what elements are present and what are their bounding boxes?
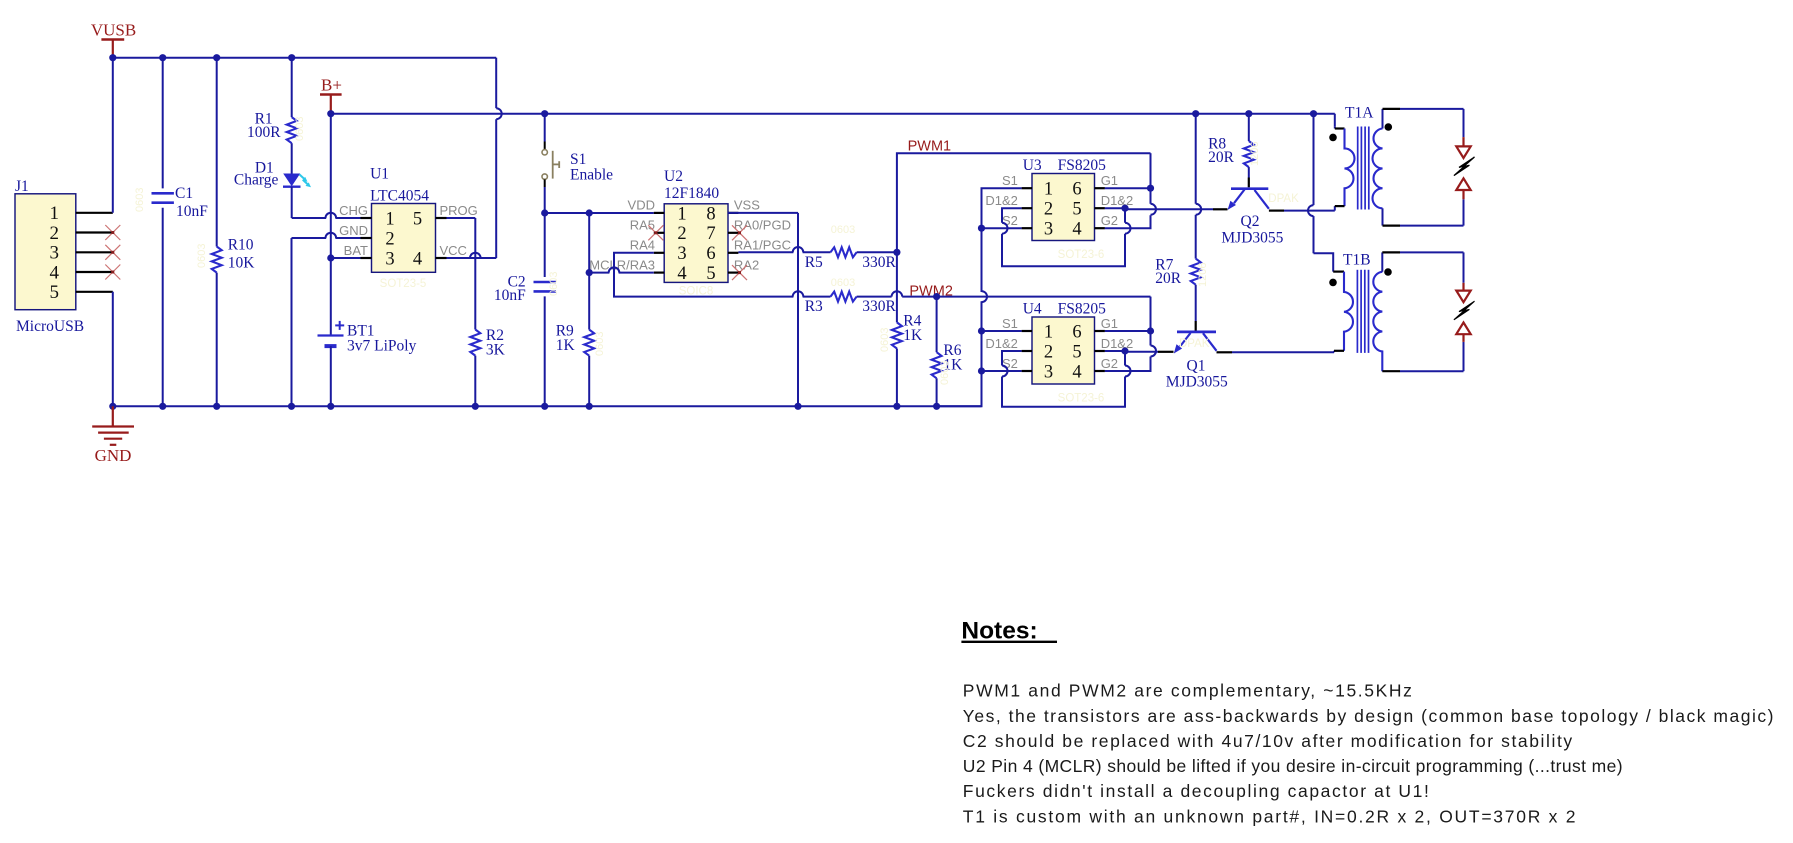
IC U3 FS8205 box xyxy=(1023,157,1106,241)
junction rail R9 xyxy=(586,403,593,410)
svg-text:SOT23-5: SOT23-5 xyxy=(380,278,427,290)
IC U3 pin name labels xyxy=(985,173,1133,228)
resistor R2 xyxy=(470,327,505,407)
svg-text:1K: 1K xyxy=(556,337,576,354)
transformer T1A core xyxy=(1358,127,1369,210)
wire B+ to BAT pin and battery xyxy=(330,114,332,336)
wire VDD to MCLR node xyxy=(588,213,590,273)
phase dot T1A secondary xyxy=(1385,123,1393,131)
svg-text:D1&2: D1&2 xyxy=(1101,336,1134,351)
svg-text:5: 5 xyxy=(50,282,60,303)
capacitor C1 xyxy=(152,58,209,407)
svg-text:VDD: VDD xyxy=(628,198,655,213)
wire R7 bias line from B+ (hops Q2 emitter wire) xyxy=(1196,114,1202,259)
wire U2 RA1/PGC to R5 (hops VSS line) xyxy=(738,247,830,252)
wire U2 MCLR to R9 node (hops RA4 route) xyxy=(589,267,654,272)
connector J1 box xyxy=(15,178,84,335)
junction R5 / PWM1 xyxy=(893,249,900,256)
wire U3 D1&2 to Q2 emitter (hopped by gate bus and R7 line) xyxy=(1105,208,1228,209)
junction R8 top xyxy=(1245,110,1252,117)
svg-text:7: 7 xyxy=(706,224,715,244)
svg-text:RA4: RA4 xyxy=(630,237,655,252)
svg-text:Fuckers didn't install a decou: Fuckers didn't install a decoupling capa… xyxy=(963,781,1431,801)
svg-text:J1: J1 xyxy=(15,178,29,195)
IC U1 pin stubs xyxy=(361,218,447,258)
junction U4 S2 xyxy=(978,367,985,374)
IC U2 12F1840 box xyxy=(664,168,728,282)
junction C1 top xyxy=(159,54,166,61)
svg-text:S1: S1 xyxy=(1002,173,1018,188)
wire T1B secondary loop xyxy=(1400,252,1464,371)
svg-text:VSS: VSS xyxy=(734,198,760,213)
wire VDD line xyxy=(545,212,654,214)
switch S1 Enable xyxy=(542,114,613,213)
IC U2 pin name labels xyxy=(589,198,791,273)
svg-text:1K: 1K xyxy=(903,327,923,344)
LED D1 xyxy=(234,143,301,188)
junction S1 top xyxy=(541,110,548,117)
wire U4 D1&2 to Q1 emitter (hopped by gate bus) xyxy=(1105,350,1174,353)
wire T1A secondary loop xyxy=(1400,109,1464,226)
svg-text:1: 1 xyxy=(677,204,686,224)
junction rail R2 xyxy=(472,403,479,410)
battery BT1 xyxy=(318,321,417,406)
junction R7 bias top xyxy=(1192,110,1199,117)
svg-text:0603: 0603 xyxy=(134,188,146,212)
svg-text:U2 Pin 4 (MCLR) should be lift: U2 Pin 4 (MCLR) should be lifted if you … xyxy=(963,756,1623,776)
svg-text:3: 3 xyxy=(50,243,60,264)
wire U3 G1 xyxy=(1105,187,1151,189)
svg-text:8: 8 xyxy=(706,204,715,224)
no-connect X U2 pin 5 xyxy=(732,265,747,280)
wire PWM1 from R5 to U3 gate bus xyxy=(897,153,1151,252)
resistor R6 xyxy=(932,297,964,407)
svg-text:6: 6 xyxy=(1072,322,1081,342)
wire VUSB top rail xyxy=(113,57,496,59)
svg-text:Q1: Q1 xyxy=(1187,358,1206,375)
junction rail C2 xyxy=(541,403,548,410)
svg-text:S1: S1 xyxy=(570,151,586,168)
svg-text:BAT: BAT xyxy=(344,243,368,258)
svg-text:FS8205: FS8205 xyxy=(1058,157,1106,174)
svg-text:CHG: CHG xyxy=(339,203,368,218)
no-connect X U2 pin 7 xyxy=(732,225,747,240)
wire Q1 collector to T1B primary xyxy=(1217,351,1335,353)
svg-text:PWM1 and PWM2 are complementar: PWM1 and PWM2 are complementary, ~15.5KH… xyxy=(963,681,1414,701)
svg-text:10nF: 10nF xyxy=(494,287,526,304)
svg-text:VCC: VCC xyxy=(440,243,467,258)
resistor R5 xyxy=(805,247,897,271)
junction U3 D1&2 right xyxy=(1121,205,1128,212)
IC U4 pin name labels xyxy=(985,316,1133,371)
no-connect X J1 pin 3 xyxy=(105,245,120,260)
svg-text:LTC4054: LTC4054 xyxy=(370,188,429,205)
svg-text:5: 5 xyxy=(413,209,422,229)
junction rail BT1 xyxy=(327,403,334,410)
wire B+ corner to T1A primary xyxy=(1334,114,1336,127)
svg-text:MJD3055: MJD3055 xyxy=(1166,374,1228,391)
wire source bus U3/U4 to GND (hops PWM2) xyxy=(937,188,1022,406)
junction R1 top xyxy=(288,54,295,61)
svg-text:D1&2: D1&2 xyxy=(985,193,1018,208)
svg-text:G1: G1 xyxy=(1101,316,1118,331)
junction rail R6 xyxy=(933,403,940,410)
transformer T1A xyxy=(1335,104,1374,206)
svg-text:3K: 3K xyxy=(486,341,506,358)
svg-text:10K: 10K xyxy=(228,255,256,272)
svg-text:Yes, the transistors are ass-b: Yes, the transistors are ass-backwards b… xyxy=(963,706,1775,726)
svg-text:0603: 0603 xyxy=(831,224,855,236)
svg-text:Notes:: Notes: xyxy=(961,618,1037,645)
svg-text:RA5: RA5 xyxy=(630,218,655,233)
transformer T1B xyxy=(1333,251,1370,351)
phase dot T1B primary xyxy=(1329,279,1337,287)
svg-text:U3: U3 xyxy=(1023,157,1042,174)
svg-text:SOT23-6: SOT23-6 xyxy=(1058,249,1105,261)
svg-text:6: 6 xyxy=(1072,180,1081,200)
power flag B+ xyxy=(320,76,342,114)
svg-text:Charge: Charge xyxy=(234,172,279,189)
svg-text:U1: U1 xyxy=(370,166,389,183)
svg-text:2: 2 xyxy=(677,224,686,244)
IC U2 pin stubs xyxy=(654,213,739,273)
junction MCLR node xyxy=(586,269,593,276)
svg-text:4: 4 xyxy=(677,264,686,284)
resistor R9 xyxy=(556,273,595,407)
svg-text:MCLR/RA3: MCLR/RA3 xyxy=(589,257,655,272)
junction VDD node xyxy=(541,209,548,216)
ground symbol GND xyxy=(92,406,134,465)
svg-text:1: 1 xyxy=(1044,322,1053,342)
wire U2 RA4 route to R3 (PWM2) xyxy=(614,253,831,297)
svg-text:G1: G1 xyxy=(1101,173,1118,188)
svg-text:0603: 0603 xyxy=(294,117,306,141)
phase dot T1B secondary xyxy=(1384,268,1392,276)
wire U1 PROG to R2 xyxy=(447,218,476,330)
svg-text:12F1840: 12F1840 xyxy=(664,185,719,202)
transformer T1B core xyxy=(1357,270,1368,353)
svg-text:3v7 LiPoly: 3v7 LiPoly xyxy=(347,338,417,355)
resistor R10 xyxy=(212,58,256,407)
svg-text:S2: S2 xyxy=(1002,356,1018,371)
svg-text:0603: 0603 xyxy=(196,244,208,268)
svg-text:20R: 20R xyxy=(1155,270,1182,287)
wire U1 BAT pin xyxy=(331,257,361,259)
wire T1B feed from B+ (hops Q2 collector wire) xyxy=(1308,114,1333,272)
svg-text:4: 4 xyxy=(50,262,60,283)
svg-text:D1&2: D1&2 xyxy=(1101,193,1134,208)
svg-text:0603: 0603 xyxy=(548,272,560,296)
svg-text:1: 1 xyxy=(50,203,60,224)
svg-text:20R: 20R xyxy=(1208,149,1235,166)
svg-text:3: 3 xyxy=(1044,220,1053,240)
transistor Q2 MJD3055 xyxy=(1221,189,1283,247)
svg-text:DPAK: DPAK xyxy=(1268,193,1299,205)
svg-text:D1&2: D1&2 xyxy=(985,336,1018,351)
svg-text:U2: U2 xyxy=(664,168,683,185)
wire U4 drain route pin2 to pin5 xyxy=(1002,351,1131,407)
LED D1 emission arrows xyxy=(300,175,312,188)
resistor R3 xyxy=(805,291,937,315)
wire J1 pin5 to GND rail xyxy=(112,292,114,407)
wire PWM1 gate bus U3 (hops emitter wire) xyxy=(1105,153,1156,228)
junction rail C1 xyxy=(159,403,166,410)
svg-text:0603: 0603 xyxy=(831,277,855,289)
svg-text:S2: S2 xyxy=(1002,213,1018,228)
capacitor C2 xyxy=(494,213,556,406)
resistor R7 xyxy=(1155,257,1200,331)
wire U4 S1 to source bus xyxy=(982,330,1022,332)
junction rail VSS xyxy=(794,403,801,410)
svg-text:VUSB: VUSB xyxy=(91,21,136,40)
resistor R1 xyxy=(247,58,297,144)
svg-text:R10: R10 xyxy=(228,237,254,254)
no-connect X J1 pin 4 xyxy=(105,265,120,280)
junction U1 BAT pin xyxy=(327,254,334,261)
wire VUSB to U1 VCC (hops B+) xyxy=(447,58,502,258)
svg-text:G2: G2 xyxy=(1101,356,1118,371)
junction U4 G1 xyxy=(1147,327,1154,334)
svg-text:0603: 0603 xyxy=(879,328,891,352)
wire B+ rail xyxy=(331,113,1335,115)
wire PWM2 gate bus U4 (hops emitter wire) xyxy=(1105,297,1156,371)
svg-text:MJD3055: MJD3055 xyxy=(1221,230,1283,247)
svg-text:GND: GND xyxy=(339,223,368,238)
svg-text:U4: U4 xyxy=(1023,301,1042,318)
svg-text:S1: S1 xyxy=(1002,316,1018,331)
junction U4 S1 xyxy=(978,327,985,334)
IC U2 pin numbers xyxy=(677,204,715,284)
no-connect X U2 pin 2 xyxy=(648,225,663,240)
wire J1 pin1 to VUSB xyxy=(112,58,114,213)
svg-text:DPAK: DPAK xyxy=(1179,338,1210,350)
junction rail GND symbol xyxy=(109,403,116,410)
svg-text:R3: R3 xyxy=(805,298,823,315)
IC U4 pin numbers xyxy=(1044,322,1082,382)
wire U3 drain route pin2 to pin5 xyxy=(1002,208,1131,266)
svg-text:2: 2 xyxy=(1044,342,1053,362)
svg-text:GND: GND xyxy=(95,446,132,465)
phase dot T1A primary xyxy=(1329,134,1337,142)
svg-text:2: 2 xyxy=(385,229,394,249)
svg-text:10nF: 10nF xyxy=(176,203,208,220)
svg-text:0603: 0603 xyxy=(594,332,606,356)
IC U4 pin stubs xyxy=(1022,331,1105,371)
wire U4 G1 xyxy=(1105,330,1151,332)
wire U2 VSS to GND rail xyxy=(728,213,798,406)
notes text xyxy=(963,681,1775,827)
IC U1 LTC4054 box xyxy=(370,166,435,273)
svg-text:1206: 1206 xyxy=(1249,142,1261,166)
svg-text:3: 3 xyxy=(385,249,394,269)
svg-text:C2 should be replaced with 4u7: C2 should be replaced with 4u7/10v after… xyxy=(963,731,1574,751)
junction T1B feed xyxy=(1310,110,1317,117)
junction R6 / PWM2 xyxy=(933,293,940,300)
wire GND rail xyxy=(113,405,982,407)
IC U4 FS8205 box xyxy=(1023,301,1106,385)
junction U3 S2 xyxy=(978,225,985,232)
svg-text:FS8205: FS8205 xyxy=(1058,301,1106,318)
resistor R8 xyxy=(1208,114,1254,188)
junction rail U1 GND xyxy=(288,403,295,410)
connector J1 pin numbers xyxy=(50,203,60,303)
wire U1 GND to rail (hops BAT line) xyxy=(292,233,361,407)
IC U3 pin numbers xyxy=(1044,180,1082,240)
spark bolt T1A xyxy=(1454,157,1475,176)
output electrode gap T1A xyxy=(1456,137,1470,199)
svg-text:6: 6 xyxy=(706,244,715,264)
svg-text:4: 4 xyxy=(413,249,422,269)
svg-text:PWM1: PWM1 xyxy=(908,138,952,154)
wire U1 VCC (hops R2 line) xyxy=(447,253,497,258)
junction B+ stem xyxy=(327,110,334,117)
svg-text:G2: G2 xyxy=(1101,213,1118,228)
transistor Q1 MJD3055 xyxy=(1166,332,1228,391)
svg-text:330R: 330R xyxy=(862,254,896,271)
power flag VUSB xyxy=(91,21,136,58)
junction rail R10 xyxy=(213,403,220,410)
svg-text:100R: 100R xyxy=(247,124,281,141)
svg-text:MicroUSB: MicroUSB xyxy=(16,318,84,335)
junction U4 D1&2 right xyxy=(1121,347,1128,354)
svg-text:1206: 1206 xyxy=(1197,263,1209,287)
junction R9 top xyxy=(586,209,593,216)
resistor R4 xyxy=(892,312,923,406)
svg-text:PROG: PROG xyxy=(440,203,478,218)
junction VUSB/J1 xyxy=(109,54,116,61)
svg-text:B+: B+ xyxy=(321,76,342,95)
svg-text:1: 1 xyxy=(385,209,394,229)
svg-text:3: 3 xyxy=(1044,362,1053,382)
connector J1 pin stubs xyxy=(76,213,113,292)
svg-text:SOT23-6: SOT23-6 xyxy=(1058,393,1105,405)
transformer T1A secondary xyxy=(1373,109,1401,226)
svg-text:0603: 0603 xyxy=(939,361,951,385)
output electrode gap T1B xyxy=(1456,283,1470,342)
IC U1 pin name labels xyxy=(339,203,478,258)
transformer T1B secondary xyxy=(1373,252,1400,371)
svg-text:Q2: Q2 xyxy=(1241,213,1260,230)
svg-text:4: 4 xyxy=(1072,220,1081,240)
svg-text:C1: C1 xyxy=(175,185,193,202)
svg-text:4: 4 xyxy=(1072,362,1081,382)
svg-text:T1B: T1B xyxy=(1343,251,1371,268)
svg-text:T1 is custom with an unknown p: T1 is custom with an unknown part#, IN=0… xyxy=(963,806,1577,826)
svg-text:5: 5 xyxy=(1072,342,1081,362)
IC U3 pin stubs xyxy=(1022,188,1105,228)
svg-text:T1A: T1A xyxy=(1345,104,1374,121)
svg-text:5: 5 xyxy=(1072,200,1081,220)
svg-text:3: 3 xyxy=(677,244,686,264)
wire Q2 collector to T1A primary xyxy=(1269,206,1335,211)
svg-text:2: 2 xyxy=(50,223,60,244)
no-connect X J1 pin 2 xyxy=(105,225,120,240)
wire D1 cathode to U1 CHG (hops BAT line) xyxy=(292,187,361,218)
wire PWM2 to U4 gate bus xyxy=(937,296,1151,298)
svg-text:5: 5 xyxy=(706,264,715,284)
wire R4 from PWM1 node to rail xyxy=(896,252,898,322)
junction rail R4 xyxy=(893,403,900,410)
wire U3 S2 to source bus xyxy=(982,227,1022,229)
junction U3 G1 xyxy=(1147,185,1154,192)
junction R10 top xyxy=(213,54,220,61)
svg-text:RA1/PGC: RA1/PGC xyxy=(734,237,791,252)
wire U4 S2 to source bus xyxy=(982,370,1022,372)
svg-text:R5: R5 xyxy=(805,254,823,271)
spark bolt T1B xyxy=(1454,301,1475,320)
svg-text:330R: 330R xyxy=(862,298,896,315)
svg-text:2: 2 xyxy=(1044,200,1053,220)
svg-text:1: 1 xyxy=(1044,180,1053,200)
svg-text:Enable: Enable xyxy=(570,167,613,184)
IC U1 pin numbers xyxy=(385,209,422,269)
